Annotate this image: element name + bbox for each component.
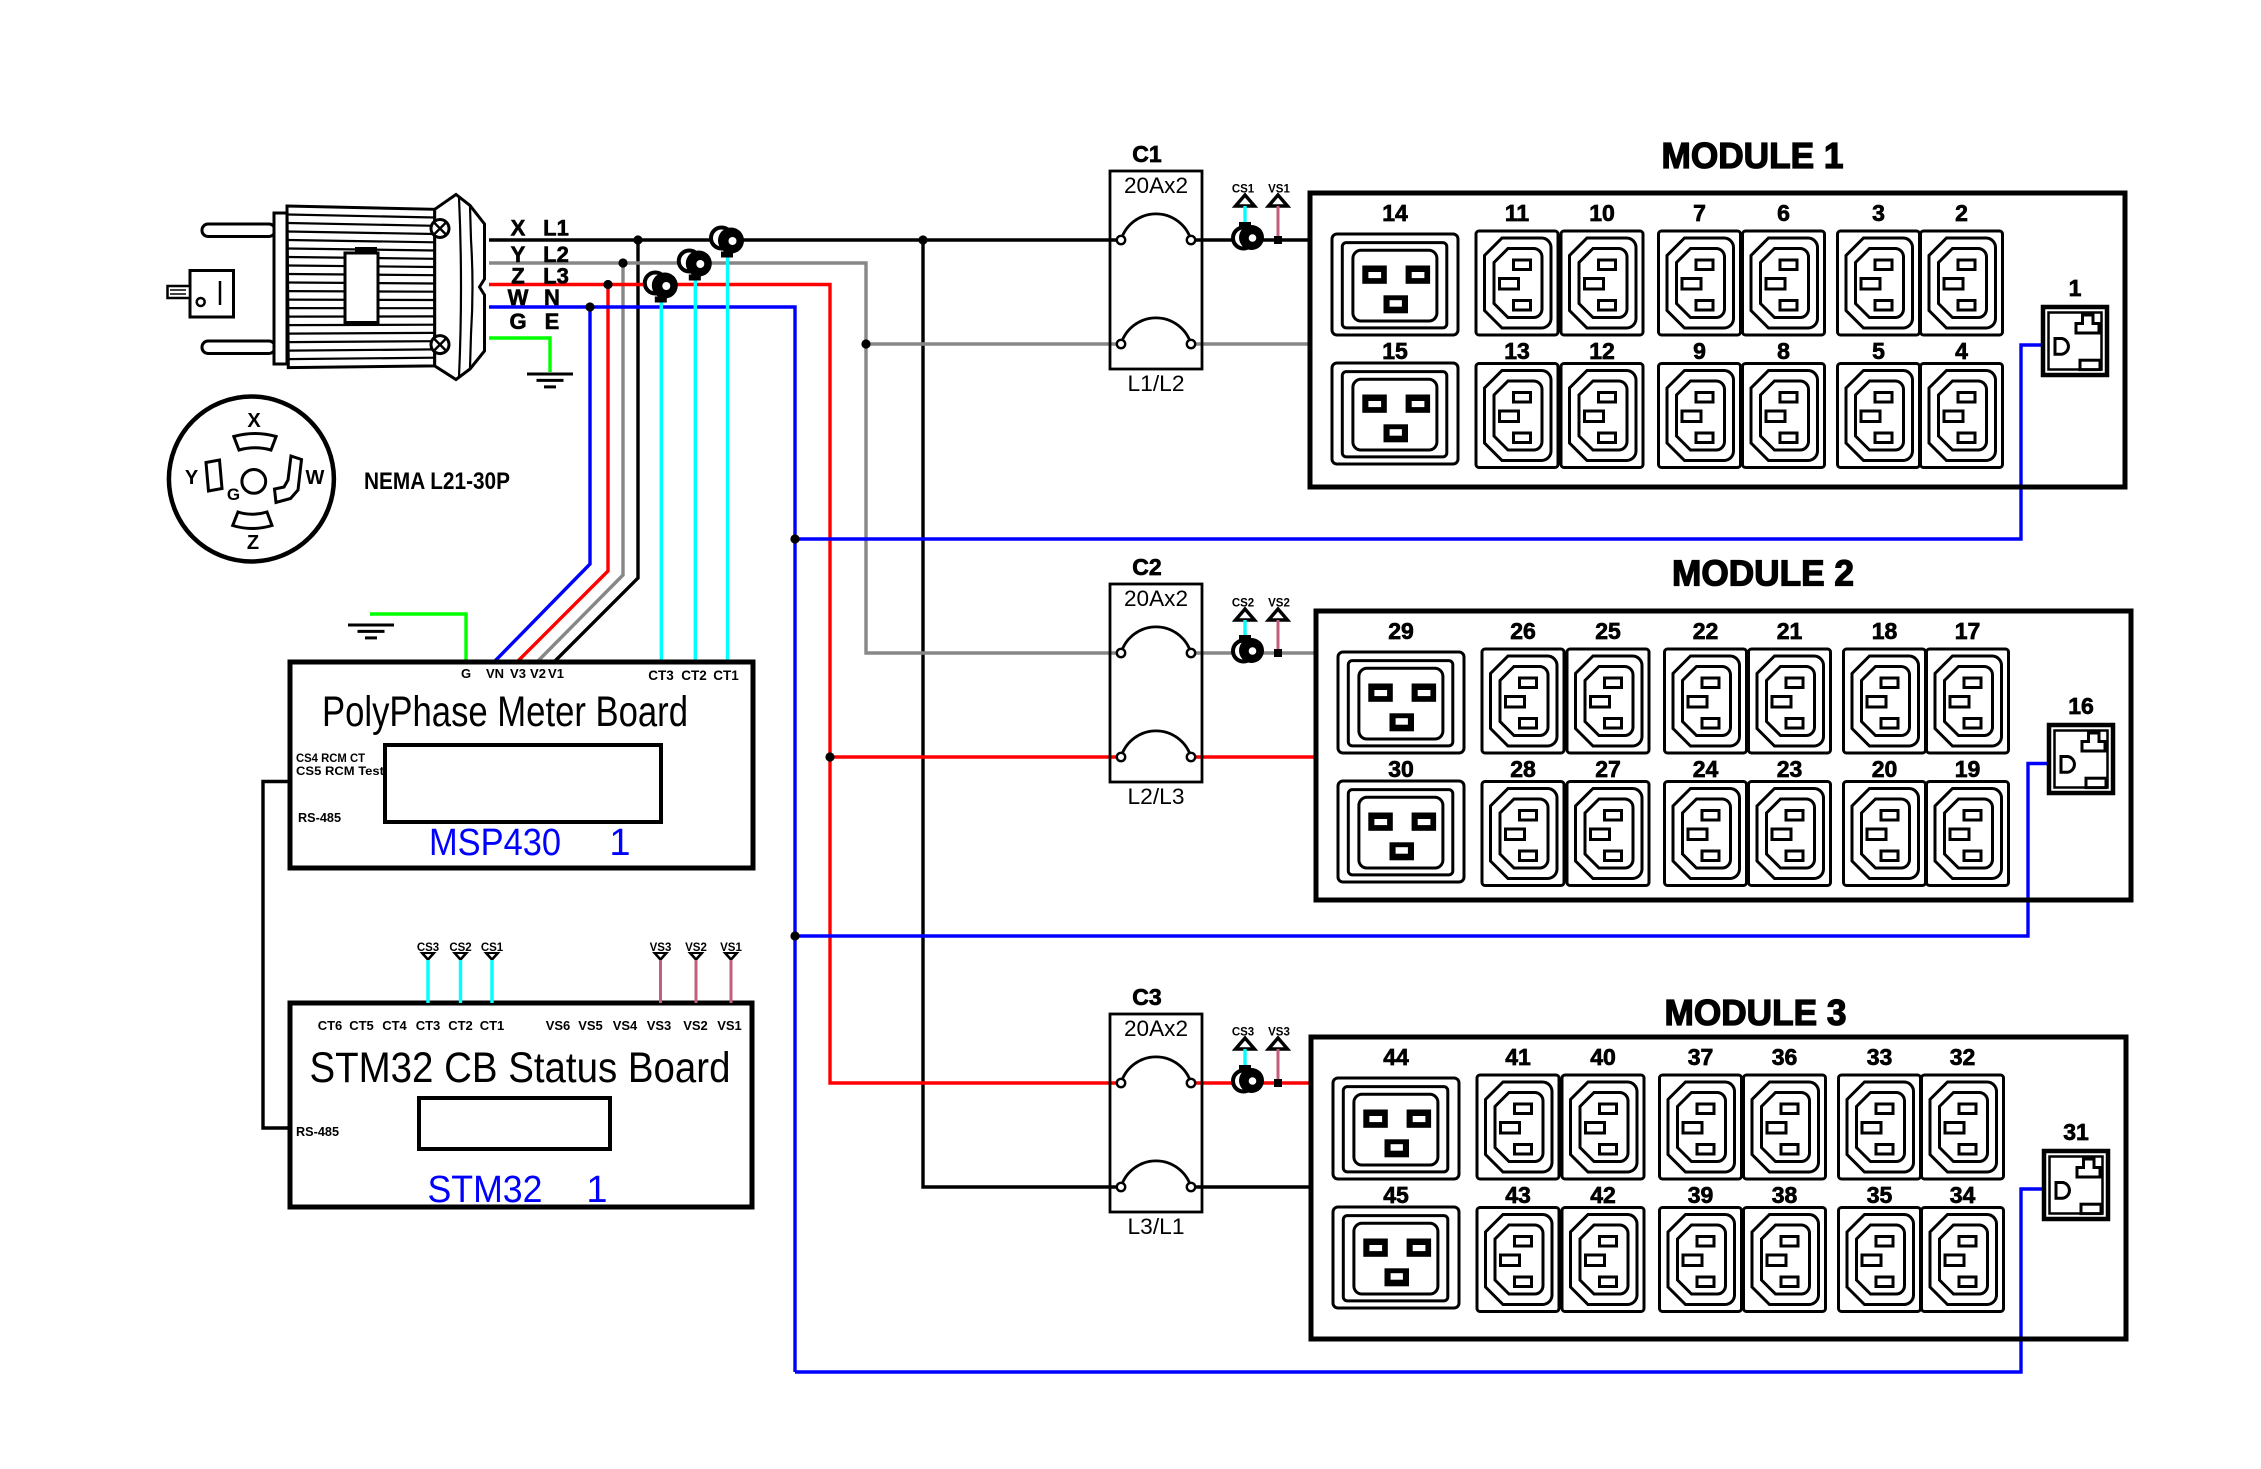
wire L2 gray branch to C1 bottom pole	[866, 342, 1117, 345]
svg-text:VN: VN	[486, 666, 504, 681]
svg-text:45: 45	[1383, 1182, 1409, 1208]
svg-text:NEMA L21-30P: NEMA L21-30P	[364, 468, 510, 495]
outlet C13 #40	[1562, 1075, 1644, 1179]
svg-text:8: 8	[1777, 338, 1790, 364]
svg-text:CS1: CS1	[1232, 184, 1255, 196]
svg-text:15: 15	[1382, 338, 1408, 364]
outlet C13 #41	[1477, 1075, 1559, 1179]
outlet C13 #4	[1921, 364, 2003, 468]
wire neutral sense drop to meter VN	[495, 307, 590, 661]
plug: left connector pin	[168, 286, 191, 298]
outlet C13 #23	[1749, 782, 1831, 886]
svg-text:36: 36	[1772, 1044, 1798, 1070]
svg-text:20Ax2: 20Ax2	[1124, 1016, 1188, 1041]
STM32 CB Status Board box	[290, 1003, 752, 1207]
svg-text:CS3: CS3	[1232, 1027, 1254, 1039]
svg-text:MODULE 1: MODULE 1	[1662, 135, 1844, 176]
svg-text:6: 6	[1777, 200, 1790, 226]
svg-text:STM32 CB Status Board: STM32 CB Status Board	[310, 1044, 731, 1092]
outlet C13 #39	[1660, 1208, 1742, 1312]
meter board display rectangle	[385, 745, 661, 822]
svg-text:37: 37	[1688, 1044, 1714, 1070]
svg-text:16: 16	[2068, 693, 2094, 719]
svg-text:CT1: CT1	[713, 668, 739, 683]
outlet C13 #36	[1744, 1075, 1826, 1179]
outlet C13 #24	[1665, 782, 1747, 886]
svg-text:44: 44	[1383, 1044, 1409, 1070]
wire L1 branch down to C3 bottom pole	[923, 240, 1117, 1187]
svg-text:19: 19	[1955, 756, 1981, 782]
svg-text:25: 25	[1595, 618, 1621, 644]
svg-text:28: 28	[1510, 756, 1536, 782]
svg-text:L1/L2: L1/L2	[1128, 371, 1185, 396]
svg-text:42: 42	[1590, 1182, 1616, 1208]
svg-text:G: G	[227, 485, 240, 504]
svg-text:27: 27	[1595, 756, 1621, 782]
svg-text:RS-485: RS-485	[298, 811, 341, 825]
junction N/meter	[585, 302, 594, 311]
svg-text:41: 41	[1505, 1044, 1531, 1070]
svg-text:VS3: VS3	[647, 1018, 672, 1033]
svg-text:VS2: VS2	[683, 1018, 708, 1033]
junction L3/meter	[603, 280, 612, 289]
svg-text:9: 9	[1693, 338, 1706, 364]
circuit breaker C1 20Ax2	[1110, 171, 1202, 369]
svg-text:18: 18	[1872, 618, 1898, 644]
wire neutral blue return MODULE 3 outlet 31	[795, 1189, 2046, 1372]
svg-text:RS-485: RS-485	[296, 1125, 339, 1139]
svg-text:40: 40	[1590, 1044, 1616, 1070]
outlet C13 #27	[1567, 782, 1649, 886]
plug: left connector body	[190, 271, 234, 318]
svg-text:22: 22	[1693, 618, 1719, 644]
svg-text:20Ax2: 20Ax2	[1124, 586, 1188, 611]
outlet C13 #10	[1561, 231, 1643, 335]
outlet C13 #32	[1922, 1075, 2004, 1179]
svg-text:CS4 RCM CT: CS4 RCM CT	[296, 751, 366, 765]
junction L3/C2	[825, 752, 834, 761]
wire CT2 cyan sense	[694, 263, 697, 661]
plug: body hatch lines	[288, 215, 435, 360]
outlet C13 #35	[1839, 1208, 1921, 1312]
wire L2 sense drop to meter V2	[538, 263, 623, 661]
ground symbol at plug	[527, 374, 573, 387]
outlet C19 #15	[1332, 363, 1458, 464]
svg-text:X: X	[247, 410, 261, 432]
svg-text:L1: L1	[543, 216, 569, 241]
svg-text:G: G	[461, 666, 471, 681]
svg-text:V1: V1	[548, 666, 564, 681]
svg-text:Z: Z	[247, 532, 259, 554]
svg-text:L2/L3: L2/L3	[1128, 784, 1185, 809]
svg-text:32: 32	[1950, 1044, 1976, 1070]
svg-text:CT3: CT3	[648, 668, 674, 683]
svg-text:2: 2	[1955, 200, 1968, 226]
outlet C13 #6	[1743, 231, 1825, 335]
wire L1 black C1 output to MODULE 1	[1195, 238, 1312, 241]
svg-text:20Ax2: 20Ax2	[1124, 173, 1188, 198]
svg-text:31: 31	[2063, 1119, 2089, 1145]
outlet C13 #20	[1844, 782, 1926, 886]
svg-text:5: 5	[1872, 338, 1885, 364]
wire L1 black C3 bottom output to MODULE 3	[1195, 1185, 1313, 1188]
wire neutral blue bus from plug down x795	[489, 307, 795, 1372]
junction L2/C1	[861, 339, 870, 348]
wire L1 sense drop to meter V1	[555, 240, 638, 661]
outlet C13 #38	[1744, 1208, 1826, 1312]
receptacle G hole	[242, 470, 266, 494]
outlet C13 #19	[1927, 782, 2009, 886]
junction N/module1 return	[790, 534, 799, 543]
receptacle W slot	[275, 456, 302, 503]
svg-text:X: X	[511, 216, 526, 241]
wire L2 gray from plug, down at x866, to C1 bottom and C2 top	[489, 263, 1117, 653]
outlet C13 #42	[1562, 1208, 1644, 1312]
outlet C13 #3	[1838, 231, 1920, 335]
circuit breaker C2 20Ax2	[1110, 584, 1202, 782]
outlet C13 #26	[1482, 649, 1564, 753]
svg-text:Y: Y	[185, 467, 199, 489]
svg-text:24: 24	[1693, 756, 1719, 782]
wire ground green to meter board	[370, 614, 466, 660]
svg-text:17: 17	[1955, 618, 1981, 644]
svg-text:PolyPhase Meter Board: PolyPhase Meter Board	[322, 688, 688, 736]
wire CT3 cyan sense	[660, 285, 663, 661]
plug: bottom blade	[202, 341, 275, 354]
wire neutral blue return MODULE 2 outlet 16	[795, 764, 2051, 937]
svg-text:G: G	[509, 309, 526, 334]
svg-text:39: 39	[1688, 1182, 1714, 1208]
svg-text:N: N	[544, 285, 560, 310]
outlet C13 #33	[1839, 1075, 1921, 1179]
wire L1 black from plug to breaker C1	[489, 238, 1117, 241]
svg-text:VS1: VS1	[717, 1018, 742, 1033]
PolyPhase Meter Board box	[290, 662, 753, 868]
svg-text:43: 43	[1505, 1182, 1531, 1208]
outlet C19 #44	[1333, 1078, 1459, 1179]
MODULE 3 enclosure box	[1311, 1037, 2126, 1339]
outlet C13 #25	[1567, 649, 1649, 753]
receptacle Y slot	[206, 460, 222, 491]
svg-text:VS6: VS6	[546, 1018, 571, 1033]
svg-text:30: 30	[1388, 756, 1414, 782]
svg-text:VS4: VS4	[613, 1018, 638, 1033]
STM32 display rectangle	[419, 1098, 610, 1149]
outlet NEMA 5-20R #1	[2043, 307, 2107, 375]
junction L1/C3	[918, 235, 927, 244]
svg-text:CT5: CT5	[349, 1018, 374, 1033]
svg-text:E: E	[545, 309, 560, 334]
wire L3 red C3 top output to MODULE 3	[1195, 1081, 1312, 1084]
ground symbol at meter board	[348, 625, 394, 638]
plug: right cap	[435, 195, 485, 380]
wire ground green from plug	[489, 338, 550, 372]
MODULE 2 enclosure box	[1316, 611, 2131, 900]
svg-text:26: 26	[1510, 618, 1536, 644]
svg-text:29: 29	[1388, 618, 1414, 644]
outlet C13 #21	[1749, 649, 1831, 753]
wire L2 gray C2 top output to MODULE 2	[1195, 651, 1318, 654]
outlet C13 #11	[1476, 231, 1558, 335]
svg-text:CT3: CT3	[416, 1018, 441, 1033]
wire CT1 cyan sense	[726, 240, 729, 661]
outlet C13 #8	[1743, 364, 1825, 468]
svg-text:23: 23	[1777, 756, 1803, 782]
circuit breaker C3 20Ax2	[1110, 1014, 1202, 1212]
CT donut on L3 (CT3)	[645, 273, 678, 303]
svg-text:11: 11	[1505, 200, 1530, 226]
svg-text:C1: C1	[1132, 141, 1162, 167]
plug NEMA L21-30P: top blade	[202, 224, 275, 237]
outlet C13 #34	[1922, 1208, 2004, 1312]
wire RS-485 bus between boards	[263, 782, 289, 1129]
outlet C13 #2	[1921, 231, 2003, 335]
svg-text:20: 20	[1872, 756, 1898, 782]
svg-text:STM32: STM32	[428, 1169, 543, 1211]
CT donut on L2 (CT2)	[679, 251, 712, 281]
plug: main body	[287, 206, 435, 368]
plug: connector circle	[197, 298, 205, 306]
svg-text:VS1: VS1	[1268, 184, 1290, 196]
wire L3 red from plug, down at x830, to C2 bottom and C3 top	[489, 285, 1117, 1084]
plug: label plate	[355, 247, 377, 254]
svg-text:MODULE 2: MODULE 2	[1672, 553, 1854, 594]
wire L2 gray C1 bottom output to MODULE 1	[1195, 342, 1312, 345]
svg-text:CS5 RCM Test: CS5 RCM Test	[296, 764, 384, 778]
wire L3 red C2 bottom output to MODULE 2	[1195, 755, 1318, 758]
NEMA L21-30 receptacle face circle	[169, 397, 334, 562]
svg-text:21: 21	[1777, 618, 1803, 644]
junction L1/meter	[633, 235, 642, 244]
svg-text:W: W	[508, 285, 529, 310]
svg-text:C2: C2	[1132, 554, 1161, 580]
svg-text:W: W	[306, 467, 325, 489]
svg-text:MODULE 3: MODULE 3	[1665, 992, 1847, 1033]
outlet C13 #22	[1665, 649, 1747, 753]
svg-text:35: 35	[1867, 1182, 1893, 1208]
svg-text:C3: C3	[1132, 984, 1161, 1010]
svg-text:CT2: CT2	[681, 668, 707, 683]
svg-text:CT2: CT2	[448, 1018, 473, 1033]
outlet C13 #12	[1561, 364, 1643, 468]
outlet C13 #7	[1659, 231, 1741, 335]
svg-text:38: 38	[1772, 1182, 1798, 1208]
svg-text:12: 12	[1589, 338, 1615, 364]
junction N/module2 return	[790, 931, 799, 940]
plug: screw bottom	[431, 336, 449, 354]
svg-text:V3: V3	[510, 666, 526, 681]
svg-text:7: 7	[1693, 200, 1706, 226]
outlet C19 #14	[1332, 234, 1458, 335]
svg-text:10: 10	[1589, 200, 1615, 226]
outlet C13 #43	[1477, 1208, 1559, 1312]
CT donut on L1 (CT1)	[711, 228, 744, 258]
outlet C19 #29	[1338, 652, 1464, 753]
svg-text:13: 13	[1504, 338, 1530, 364]
svg-text:CT4: CT4	[382, 1018, 407, 1033]
wire L3 sense drop to meter V3	[518, 285, 608, 662]
junction L2/meter	[618, 258, 627, 267]
svg-text:VS5: VS5	[578, 1018, 603, 1033]
outlet NEMA 5-20R #31	[2044, 1151, 2108, 1219]
svg-text:3: 3	[1872, 200, 1885, 226]
outlet C13 #28	[1482, 782, 1564, 886]
svg-text:4: 4	[1955, 338, 1968, 364]
svg-text:MSP430: MSP430	[429, 822, 561, 864]
svg-text:1: 1	[586, 1169, 607, 1211]
svg-text:34: 34	[1950, 1182, 1976, 1208]
wire L3 red branch to C2 bottom pole	[830, 755, 1117, 758]
svg-text:L3/L1: L3/L1	[1128, 1214, 1185, 1239]
outlet C19 #45	[1333, 1207, 1459, 1308]
receptacle X slot	[234, 434, 276, 451]
outlet C13 #13	[1476, 364, 1558, 468]
svg-text:CT1: CT1	[480, 1018, 505, 1033]
svg-text:CT6: CT6	[318, 1018, 343, 1033]
outlet C13 #17	[1927, 649, 2009, 753]
wire neutral blue return MODULE 1 outlet 1	[795, 345, 2045, 539]
outlet C13 #5	[1838, 364, 1920, 468]
outlet C19 #30	[1338, 781, 1464, 882]
svg-text:14: 14	[1382, 200, 1408, 226]
outlet NEMA 5-20R #16	[2049, 725, 2113, 793]
svg-text:CS2: CS2	[1232, 598, 1254, 610]
outlet C13 #9	[1659, 364, 1741, 468]
plug: flange	[274, 213, 287, 364]
svg-text:33: 33	[1867, 1044, 1893, 1070]
outlet C13 #18	[1844, 649, 1926, 753]
svg-text:V2: V2	[530, 666, 546, 681]
outlet C13 #37	[1660, 1075, 1742, 1179]
svg-text:1: 1	[609, 822, 630, 864]
receptacle Z slot	[233, 512, 272, 529]
plug: screw top	[431, 220, 449, 238]
MODULE 1 enclosure box	[1310, 193, 2125, 487]
svg-text:1: 1	[2069, 275, 2082, 301]
